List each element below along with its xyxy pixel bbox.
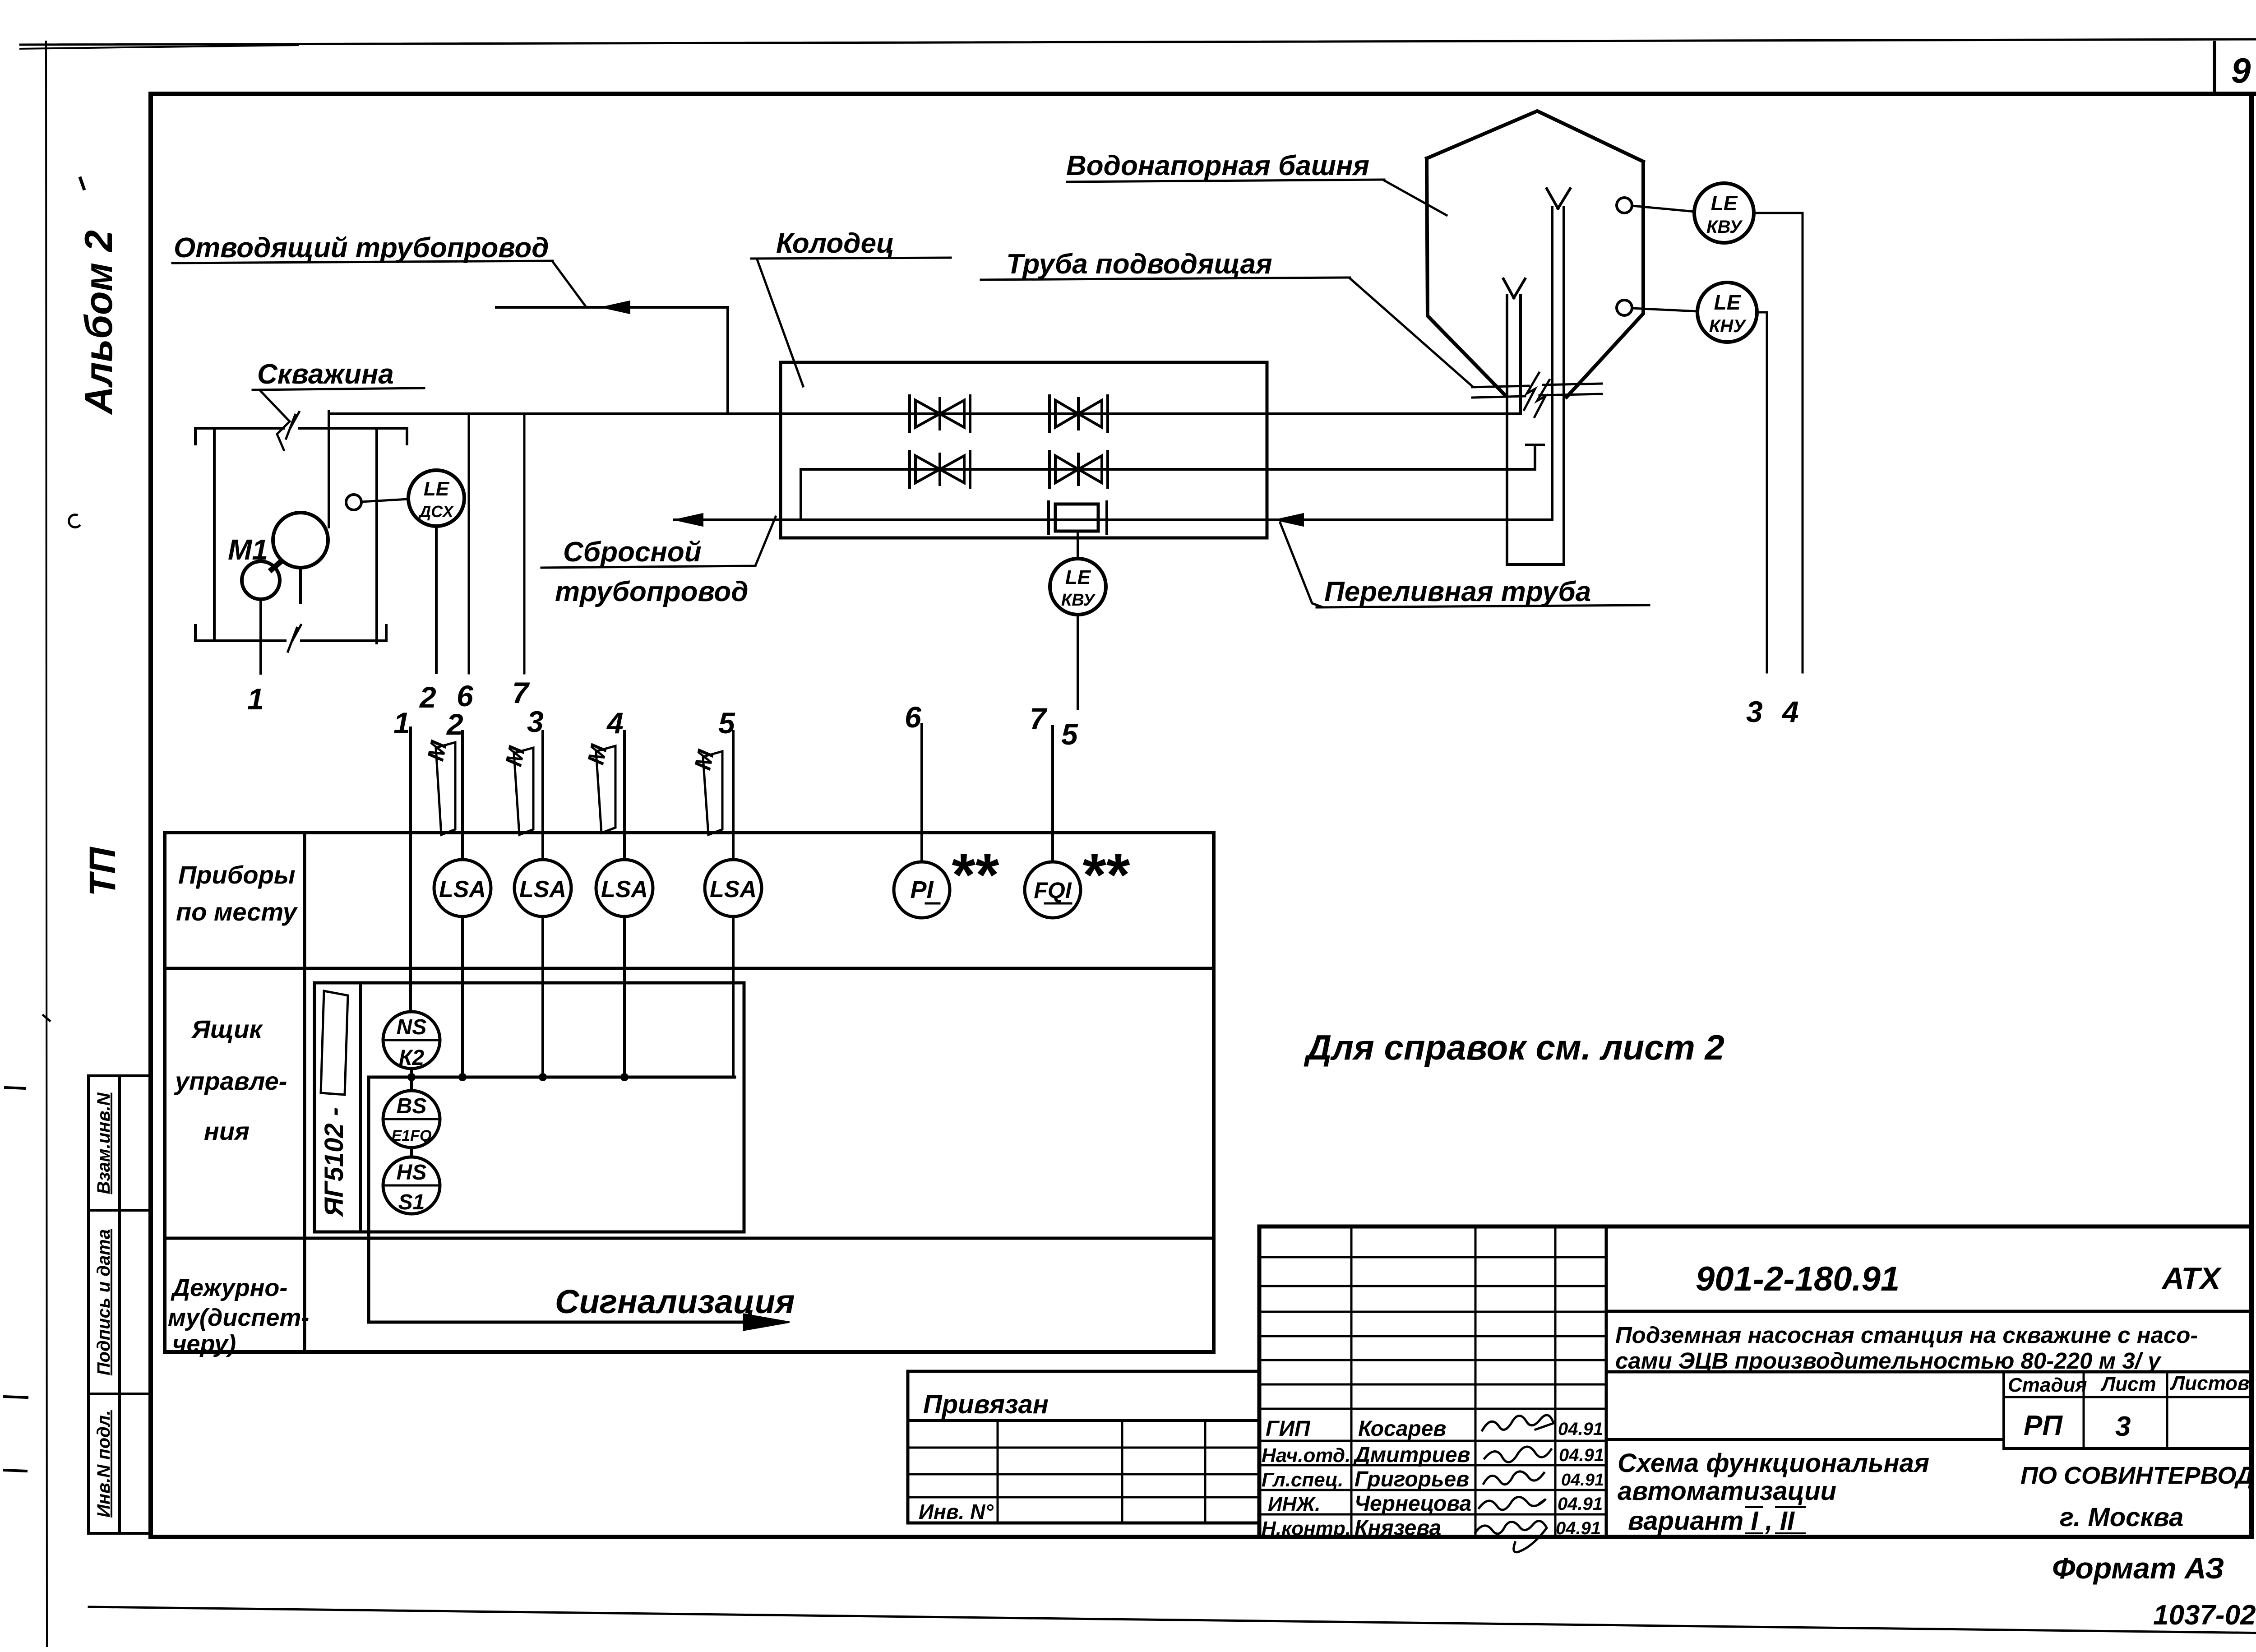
label underline Truba bbox=[981, 278, 1350, 280]
instrument LSA2 circle bbox=[514, 860, 571, 916]
valve V3 pipe2 right flange bbox=[969, 451, 971, 487]
svg-text:ТП: ТП bbox=[82, 846, 123, 896]
left edge tick mark c bbox=[5, 1087, 25, 1088]
titleblock signature col 2 bbox=[1475, 1226, 1477, 1537]
titleblock signature col 1 bbox=[1350, 1226, 1353, 1537]
signature row GIP autograph bbox=[1482, 1415, 1553, 1430]
pump stem bbox=[299, 568, 302, 602]
svg-text:Листов: Листов bbox=[2170, 1372, 2250, 1394]
valve V3 pipe2 body bbox=[915, 454, 964, 485]
svg-text:**: ** bbox=[949, 841, 999, 909]
page top edge line bbox=[20, 39, 2256, 45]
wire line5 LSA4 to bus bbox=[732, 917, 735, 1077]
valve V4 pipe2 left flange bbox=[1048, 451, 1051, 487]
tag M line2 bbox=[436, 742, 455, 835]
control box tag parallelogram bbox=[321, 991, 348, 1095]
left edge tick mark b bbox=[5, 1470, 26, 1471]
svg-text:LSA: LSA bbox=[710, 876, 757, 902]
svg-text:FQI: FQI bbox=[1034, 878, 1072, 903]
leader Kolodets bbox=[757, 259, 803, 386]
wire line1 to NS bbox=[409, 728, 412, 1012]
tower level sensor lower circle bbox=[1617, 300, 1632, 315]
frame right border bbox=[2249, 94, 2254, 1537]
orifice device right flange bbox=[1105, 502, 1108, 533]
instrument PI I underline bbox=[926, 902, 939, 905]
pipe3 end arrow bbox=[675, 514, 703, 526]
wire pipe1 well to tower bbox=[329, 412, 1521, 415]
svg-text:Косарев: Косарев bbox=[1358, 1417, 1446, 1441]
stadia col divider 1 bbox=[2083, 1372, 2085, 1448]
titleblock grid row c bbox=[1259, 1311, 1606, 1313]
junction dot line2 bus bbox=[458, 1073, 467, 1081]
svg-text:М: М bbox=[583, 742, 613, 767]
svg-text:ДСХ: ДСХ bbox=[418, 502, 454, 521]
privyazan row line 2 bbox=[908, 1447, 1259, 1449]
svg-text:ПО СОВИНТЕРВОД: ПО СОВИНТЕРВОД bbox=[2020, 1462, 2254, 1489]
valve V1 pipe1 body bbox=[915, 398, 964, 429]
titleblock grid row f bbox=[1259, 1384, 1606, 1386]
svg-text:5: 5 bbox=[1061, 717, 1078, 751]
table outer rect bbox=[165, 833, 1214, 1352]
left edge tick mark a bbox=[5, 1397, 27, 1397]
instrument FQI I underline bbox=[1045, 902, 1071, 905]
titleblock signature col 3 bbox=[1554, 1226, 1557, 1537]
instrument BS E1FQ divider bbox=[383, 1118, 440, 1120]
motor signal stem bbox=[259, 599, 262, 673]
svg-text:4: 4 bbox=[1781, 695, 1799, 728]
wire LE KVU tower signal bbox=[1754, 213, 1803, 672]
outflow pipe arrow bbox=[601, 301, 630, 314]
tower pipes bottom U bbox=[1507, 563, 1564, 566]
wire line5 to LSA4 bbox=[732, 731, 735, 860]
instrument LSA4 circle bbox=[705, 860, 762, 916]
titleblock top border bbox=[1259, 1225, 2251, 1229]
tower overflow pipe Y top bbox=[1503, 279, 1525, 298]
svg-text:7: 7 bbox=[1030, 702, 1048, 735]
valve V3 pipe2 left flange bbox=[908, 451, 911, 487]
well riser to pipe bbox=[328, 412, 330, 527]
wire outflow pipe horizontal bbox=[496, 306, 728, 309]
frame top border bbox=[151, 92, 2256, 96]
svg-text:Взам.инв.N: Взам.инв.N bbox=[94, 1092, 114, 1194]
svg-text:LSA: LSA bbox=[439, 876, 486, 902]
svg-text:управле-: управле- bbox=[174, 1067, 287, 1095]
svg-text:Чернецова: Чернецова bbox=[1355, 1492, 1471, 1516]
svg-text:04.91: 04.91 bbox=[1559, 1445, 1604, 1465]
wire line6 to PI bbox=[920, 724, 923, 862]
wire outflow pipe riser bbox=[726, 307, 729, 414]
svg-text:S1: S1 bbox=[398, 1190, 425, 1214]
tag M line5 bbox=[703, 751, 722, 835]
wire line3 to LSA2 bbox=[541, 731, 544, 860]
svg-text:3: 3 bbox=[1746, 695, 1763, 728]
svg-text:М: М bbox=[690, 747, 720, 773]
instrument LE KVU circle (chamber) bbox=[1050, 559, 1106, 615]
titleblock left border bbox=[1257, 1226, 1262, 1537]
svg-text:Отводящий трубопровод: Отводящий трубопровод bbox=[174, 232, 549, 264]
svg-text:9: 9 bbox=[2231, 51, 2251, 90]
svg-text:Схема функциональная: Схема функциональная bbox=[1618, 1448, 1929, 1478]
instrument NS K2 divider bbox=[383, 1039, 440, 1041]
well cap bottom break zigzag bbox=[288, 625, 301, 652]
svg-text:1037-02: 1037-02 bbox=[2153, 1600, 2256, 1631]
svg-text:Формат АЗ: Формат АЗ bbox=[2052, 1551, 2224, 1585]
label underline Vodonapornaya bbox=[1067, 180, 1384, 182]
stadia row bottom bbox=[2004, 1447, 2251, 1450]
well cap top break zigzag bbox=[286, 412, 299, 439]
svg-text:BS: BS bbox=[397, 1094, 427, 1118]
svg-text:04.91: 04.91 bbox=[1558, 1494, 1603, 1514]
titleblock signature row 3 line bbox=[1259, 1489, 1606, 1491]
svg-text:Инв. N°: Инв. N° bbox=[919, 1500, 994, 1523]
svg-text:вариант I , II: вариант I , II bbox=[1628, 1506, 1795, 1536]
wire sensor to LE KNU tower bbox=[1632, 308, 1698, 311]
orifice device left flange bbox=[1047, 502, 1050, 533]
privyazan table top border bbox=[908, 1370, 1259, 1373]
wire line2 LSA1 to bus bbox=[461, 917, 464, 1077]
tower feed pipe left wall bbox=[1551, 208, 1553, 520]
left margin small mark 3 bbox=[43, 1015, 50, 1021]
table label column divider bbox=[303, 833, 306, 1352]
left margin small mark 1 bbox=[80, 178, 84, 189]
svg-text:РП: РП bbox=[2024, 1410, 2063, 1441]
svg-text:6: 6 bbox=[905, 700, 922, 734]
leader Perelivnaya bbox=[1280, 523, 1322, 607]
svg-text:К2: К2 bbox=[399, 1046, 425, 1070]
svg-text:Подпись и дата: Подпись и дата bbox=[94, 1229, 114, 1375]
privyazan table bottom border bbox=[908, 1522, 1259, 1525]
valve V1 pipe1 right flange bbox=[969, 396, 971, 432]
titleblock grid row e bbox=[1259, 1359, 1606, 1361]
left stamp column divider vertical bbox=[118, 1076, 121, 1533]
svg-text:Колодец: Колодец bbox=[776, 228, 894, 259]
svg-text:Гл.спец.: Гл.спец. bbox=[1262, 1469, 1343, 1491]
svg-text:КНУ: КНУ bbox=[1709, 316, 1747, 336]
svg-text:**: ** bbox=[1080, 841, 1130, 909]
label underline Sbrosnoy bbox=[541, 566, 755, 568]
svg-text:ГИП: ГИП bbox=[1266, 1417, 1311, 1441]
stadia col divider 2 bbox=[2166, 1372, 2168, 1448]
wire orifice to LE KVU bbox=[1077, 531, 1079, 559]
tower overflow pipe left wall bbox=[1506, 296, 1508, 565]
ground break upper line bbox=[1472, 384, 1602, 387]
svg-text:1: 1 bbox=[247, 682, 264, 716]
svg-text:PI: PI bbox=[910, 876, 934, 903]
privyazan col divider 3 bbox=[1204, 1421, 1207, 1523]
wire pipe2 tower feed bbox=[801, 468, 1535, 471]
svg-text:Е1FQ: Е1FQ bbox=[392, 1127, 432, 1144]
privyazan header underline bbox=[908, 1419, 1259, 1422]
svg-text:Сбросной: Сбросной bbox=[563, 537, 702, 568]
svg-text:Подземная насосная станция: Подземная насосная станция на скважине с… bbox=[1615, 1322, 2198, 1348]
well cap top line bbox=[195, 428, 407, 444]
left margin small mark 2 bbox=[69, 515, 79, 528]
frame left border bbox=[148, 94, 153, 1537]
svg-text:трубопровод: трубопровод bbox=[555, 576, 749, 607]
pipe3 mid arrow bbox=[1275, 514, 1304, 526]
wire pressure tap 6 bbox=[468, 414, 470, 673]
wire LE KNU tower signal bbox=[1757, 312, 1767, 672]
junction dot line3 bus bbox=[539, 1073, 547, 1081]
svg-text:2: 2 bbox=[446, 708, 463, 741]
svg-text:ния: ния bbox=[204, 1117, 250, 1145]
svg-text:LE: LE bbox=[1711, 191, 1738, 215]
privyazan col divider 1 bbox=[997, 1421, 999, 1523]
titleblock signature row 4 line bbox=[1259, 1513, 1606, 1516]
orifice device body bbox=[1055, 504, 1098, 531]
level sensor circle in well bbox=[346, 495, 361, 510]
svg-text:Нач.отд.: Нач.отд. bbox=[1262, 1444, 1350, 1467]
wire BS to HS bbox=[410, 1148, 413, 1157]
stadia header underline bbox=[2004, 1396, 2251, 1398]
tower overflow pipe right wall bbox=[1519, 296, 1522, 414]
well casing right bbox=[375, 428, 378, 643]
table row divider 2 bbox=[165, 1237, 1214, 1240]
svg-text:2: 2 bbox=[419, 680, 436, 714]
valve V2 pipe1 body bbox=[1055, 398, 1102, 429]
wire sensor to LE DSKh bbox=[361, 499, 408, 502]
svg-text:NS: NS bbox=[397, 1015, 427, 1039]
wire LE KVU stem bbox=[1077, 615, 1079, 708]
svg-text:Лист: Лист bbox=[2100, 1373, 2156, 1395]
leader Sbrosnoy bbox=[755, 517, 776, 566]
svg-text:Н.контр.: Н.контр. bbox=[1262, 1518, 1351, 1540]
signature row Nach autograph bbox=[1484, 1447, 1551, 1462]
motor circle M1 bbox=[242, 561, 280, 599]
signature row Inzh autograph bbox=[1479, 1497, 1546, 1510]
svg-text:Инв.N подл.: Инв.N подл. bbox=[94, 1410, 114, 1518]
svg-text:7: 7 bbox=[512, 676, 530, 709]
label underline Kolodets bbox=[751, 258, 951, 259]
page bottom edge line bbox=[89, 1607, 2256, 1633]
instrument LE DSKh circle bbox=[408, 470, 464, 526]
svg-text:LSA: LSA bbox=[601, 876, 648, 902]
svg-text:М: М bbox=[423, 738, 453, 764]
svg-text:HS: HS bbox=[397, 1161, 427, 1185]
instrument BS E1FQ circle bbox=[383, 1091, 440, 1148]
svg-text:Скважина: Скважина bbox=[257, 359, 394, 390]
page top edge doubled segment left bbox=[20, 45, 298, 49]
svg-text:сами ЭЦВ производительностью: сами ЭЦВ производительностью 80-220 м 3/… bbox=[1615, 1348, 2162, 1374]
valve V2 pipe1 left flange bbox=[1048, 396, 1051, 432]
label underline Skvazhina bbox=[253, 388, 424, 390]
svg-text:Водонапорная башня: Водонапорная башня bbox=[1066, 150, 1369, 181]
svg-text:3: 3 bbox=[527, 705, 544, 738]
junction dot line4 bus bbox=[620, 1073, 629, 1081]
svg-text:LE: LE bbox=[1714, 291, 1741, 314]
valve V4 pipe2 right flange bbox=[1106, 451, 1109, 487]
svg-text:Дежурно-: Дежурно- bbox=[171, 1274, 287, 1301]
svg-text:Григорьев: Григорьев bbox=[1355, 1467, 1469, 1491]
svg-text:04.91: 04.91 bbox=[1558, 1419, 1603, 1439]
svg-text:1: 1 bbox=[393, 706, 410, 740]
titleblock signature area right divider bbox=[1605, 1226, 1608, 1537]
svg-text:КВУ: КВУ bbox=[1706, 217, 1743, 237]
svg-text:Для справок см. лист 2: Для справок см. лист 2 bbox=[1304, 1027, 1724, 1067]
svg-text:LE: LE bbox=[424, 478, 450, 500]
feed pipe T stub bbox=[1526, 445, 1544, 469]
pump-motor coupling bbox=[272, 562, 281, 569]
junction dot NS bus bbox=[407, 1073, 416, 1081]
leader Truba bbox=[1350, 278, 1472, 386]
svg-text:ЯГ5102 -: ЯГ5102 - bbox=[319, 1107, 349, 1217]
signature row Nkontr autograph bbox=[1475, 1521, 1547, 1552]
leader Otvodyashchiy bbox=[553, 262, 586, 306]
left stamp box top line bbox=[88, 1074, 151, 1077]
label underline Otvodyashchiy bbox=[172, 261, 553, 263]
svg-text:04.91: 04.91 bbox=[1556, 1518, 1601, 1538]
instrument HS S1 divider bbox=[383, 1185, 440, 1187]
valve V4 pipe2 body bbox=[1055, 454, 1102, 485]
tag M line4 bbox=[596, 746, 615, 833]
titleblock signature row 1 line bbox=[1259, 1440, 1606, 1442]
wire line4 LSA3 to bus bbox=[623, 917, 626, 1077]
svg-text:по месту: по месту bbox=[176, 898, 298, 926]
valve V1 pipe1 left flange bbox=[908, 396, 911, 432]
left stamp box divider 2 bbox=[88, 1393, 151, 1395]
wire line7 to FQI bbox=[1051, 727, 1054, 862]
leader Vodonapornaya bbox=[1384, 180, 1447, 215]
svg-text:черу): черу) bbox=[172, 1330, 236, 1357]
signature row Gl autograph bbox=[1484, 1472, 1544, 1485]
instrument PI circle bbox=[894, 862, 950, 918]
page left edge line bbox=[46, 42, 47, 1646]
tower level sensor upper circle bbox=[1617, 198, 1632, 213]
ground break lower line bbox=[1472, 394, 1602, 398]
wire NS to BS bbox=[410, 1069, 413, 1091]
svg-text:Приборы: Приборы bbox=[178, 861, 296, 889]
instrument NS K2 circle bbox=[383, 1012, 440, 1069]
titleblock scheme cell divider bbox=[1606, 1438, 2004, 1441]
leader Skvazhina bbox=[260, 391, 290, 450]
left stamp box divider 1 bbox=[88, 1209, 151, 1212]
wire bus drop to dispatcher bbox=[369, 1077, 760, 1322]
ground break zigzag bbox=[1524, 373, 1549, 417]
instrument LE KVU tower circle bbox=[1694, 183, 1754, 243]
instrument LSA3 circle bbox=[596, 860, 653, 916]
label underline Perelivnaya bbox=[1317, 605, 1649, 607]
svg-text:Ящик: Ящик bbox=[191, 1015, 263, 1043]
table row divider 1 bbox=[165, 967, 1214, 970]
svg-text:Дмитриев: Дмитриев bbox=[1353, 1443, 1470, 1467]
svg-text:LSA: LSA bbox=[519, 876, 566, 902]
tower feed pipe Y top bbox=[1547, 189, 1570, 208]
wire line2 to LSA1 bbox=[461, 731, 464, 860]
instrument HS S1 circle bbox=[383, 1157, 440, 1214]
sheet number box divider bbox=[2213, 42, 2216, 94]
privyazan row line 3 bbox=[908, 1473, 1259, 1476]
stadia table left border bbox=[2002, 1372, 2005, 1448]
left stamp box bottom line bbox=[88, 1532, 151, 1535]
svg-text:901-2-180.91: 901-2-180.91 bbox=[1696, 1260, 1900, 1298]
left stamp column outer vertical bbox=[87, 1076, 90, 1533]
control box YaG5102 rect bbox=[314, 983, 744, 1232]
svg-text:АТХ: АТХ bbox=[2161, 1261, 2222, 1296]
titleblock band divider 2 bbox=[1606, 1370, 2251, 1374]
titleblock grid row g bbox=[1259, 1408, 1606, 1410]
privyazan row line 4 bbox=[908, 1496, 1259, 1499]
instrument FQI circle bbox=[1025, 862, 1081, 918]
water tower tank outline bbox=[1427, 111, 1643, 397]
wire pipe3 drain bbox=[675, 518, 1552, 521]
titleblock signature row 2 line bbox=[1259, 1464, 1606, 1467]
svg-text:Труба подводящая: Труба подводящая bbox=[1006, 249, 1272, 280]
pump circle M1 bbox=[273, 513, 328, 568]
svg-text:Князева: Князева bbox=[1355, 1516, 1441, 1540]
wire line4 to LSA3 bbox=[623, 731, 626, 860]
svg-text:Альбом 2: Альбом 2 bbox=[77, 230, 120, 415]
chamber box Kolodets bbox=[781, 362, 1267, 538]
svg-text:Переливная труба: Переливная труба bbox=[1324, 576, 1591, 607]
valve V2 pipe1 right flange bbox=[1106, 396, 1109, 432]
svg-text:Стадия: Стадия bbox=[2008, 1374, 2087, 1396]
titleblock grid row d bbox=[1259, 1335, 1606, 1337]
wire sensor to LE KVU tower bbox=[1632, 206, 1695, 212]
instrument LE KNU tower circle bbox=[1697, 282, 1757, 342]
svg-text:г. Москва: г. Москва bbox=[2060, 1503, 2183, 1532]
svg-text:Привязан: Привязан bbox=[923, 1390, 1049, 1419]
instrument LSA1 circle bbox=[434, 860, 491, 916]
svg-text:Сигнализация: Сигнализация bbox=[555, 1283, 795, 1320]
svg-text:04.91: 04.91 bbox=[1561, 1471, 1604, 1490]
wire line3 LSA2 to bus bbox=[541, 917, 544, 1077]
privyazan table left border bbox=[906, 1371, 910, 1523]
svg-text:LE: LE bbox=[1065, 566, 1091, 588]
svg-text:му(диспет-: му(диспет- bbox=[168, 1304, 309, 1331]
roman numeral serif bars bbox=[1746, 1507, 1805, 1533]
wire LE DSKh signal stem bbox=[435, 526, 438, 672]
frame bottom border bbox=[151, 1535, 2251, 1539]
well cap bottom line bbox=[195, 625, 386, 641]
well casing left bbox=[213, 428, 216, 641]
wire signal bus bbox=[369, 1076, 735, 1079]
titleblock band divider 1 bbox=[1606, 1310, 2251, 1313]
titleblock grid row a bbox=[1259, 1256, 1606, 1259]
tower feed pipe right wall bbox=[1563, 208, 1565, 565]
svg-text:М: М bbox=[501, 744, 531, 769]
svg-text:4: 4 bbox=[606, 706, 624, 740]
wire flow tap 7 bbox=[523, 414, 526, 673]
svg-text:М1: М1 bbox=[228, 533, 268, 566]
svg-text:ИНЖ.: ИНЖ. bbox=[1268, 1493, 1320, 1515]
privyazan col divider 2 bbox=[1121, 1421, 1123, 1523]
svg-text:автоматизации: автоматизации bbox=[1618, 1476, 1836, 1506]
tag M line3 bbox=[514, 748, 533, 835]
signal arrow to dispatcher bbox=[744, 1314, 790, 1330]
svg-text:КВУ: КВУ bbox=[1061, 591, 1096, 610]
control box label strip divider bbox=[359, 983, 362, 1232]
svg-text:3: 3 bbox=[2115, 1411, 2131, 1442]
wire pipe2 drop to drain bbox=[800, 469, 802, 520]
titleblock grid row b bbox=[1259, 1285, 1606, 1287]
